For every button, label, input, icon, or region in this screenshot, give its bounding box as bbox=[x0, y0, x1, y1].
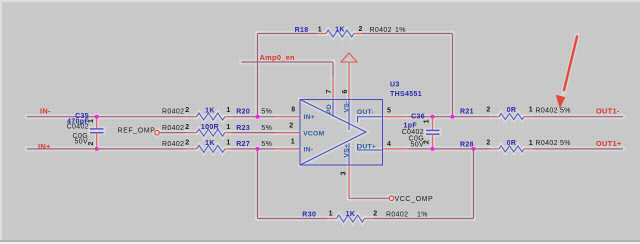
svg-text:OUT1-: OUT1- bbox=[596, 106, 620, 115]
wire: bottom feedback horizontal left of R30 bbox=[258, 218, 329, 220]
svg-text:2: 2 bbox=[289, 122, 293, 129]
port VCC_OMP bbox=[389, 196, 433, 203]
svg-text:2: 2 bbox=[185, 107, 189, 114]
svg-text:R0402: R0402 bbox=[162, 141, 184, 148]
svg-text:IN-: IN- bbox=[40, 107, 51, 116]
wire: row1 to OUT1- bbox=[533, 116, 624, 118]
svg-text:IN+: IN+ bbox=[38, 142, 51, 151]
svg-text:PD: PD bbox=[326, 104, 333, 114]
wire: bottom feedback left vertical bbox=[257, 149, 259, 219]
svg-text:R0402: R0402 bbox=[162, 109, 184, 116]
junction bottom feedback / row3 bbox=[472, 147, 476, 151]
svg-text:1K: 1K bbox=[205, 140, 215, 147]
svg-text:0R: 0R bbox=[507, 140, 517, 147]
port IN- bbox=[40, 107, 51, 116]
svg-text:R0402: R0402 bbox=[536, 108, 558, 115]
svg-text:VS-: VS- bbox=[343, 101, 350, 113]
svg-text:1: 1 bbox=[424, 119, 431, 123]
wire: bottom feedback horizontal right of R30 bbox=[373, 218, 474, 220]
svg-text:5%: 5% bbox=[261, 141, 272, 148]
wire: row2 mid bbox=[231, 132, 277, 134]
capacitor C35 bbox=[67, 113, 104, 149]
svg-text:R0402: R0402 bbox=[536, 140, 558, 147]
svg-text:1: 1 bbox=[529, 107, 533, 114]
svg-text:1: 1 bbox=[318, 26, 322, 33]
wire: Amp0_en vertical to pin 7 bbox=[332, 62, 334, 100]
svg-text:R20: R20 bbox=[236, 109, 250, 116]
resistor R18 bbox=[295, 26, 406, 37]
svg-text:2: 2 bbox=[424, 140, 431, 144]
svg-text:5: 5 bbox=[387, 107, 391, 114]
svg-text:1: 1 bbox=[291, 138, 295, 145]
svg-text:Amp0_en: Amp0_en bbox=[260, 53, 296, 62]
svg-text:1: 1 bbox=[226, 107, 230, 114]
wire: bottom feedback right vertical bbox=[473, 149, 475, 219]
svg-text:IN+: IN+ bbox=[304, 114, 315, 121]
svg-text:1%: 1% bbox=[417, 212, 428, 219]
junction C35 top bbox=[95, 115, 99, 119]
svg-text:2: 2 bbox=[185, 124, 189, 131]
svg-text:1K: 1K bbox=[346, 211, 356, 218]
pin 1 lead of U3 bbox=[276, 138, 300, 149]
svg-text:1: 1 bbox=[226, 124, 230, 131]
wire halo backdrop bbox=[27, 30, 623, 222]
svg-text:2: 2 bbox=[359, 26, 363, 33]
svg-text:0R: 0R bbox=[507, 107, 517, 114]
svg-text:C0402: C0402 bbox=[67, 124, 89, 131]
window edge left bbox=[0, 0, 2, 244]
svg-text:R0402: R0402 bbox=[162, 125, 184, 132]
svg-text:2: 2 bbox=[486, 107, 490, 114]
resistor R30 bbox=[302, 210, 428, 222]
window edge top bbox=[0, 0, 640, 2]
svg-text:50V: 50V bbox=[74, 139, 88, 146]
svg-text:VS+: VS+ bbox=[343, 144, 350, 158]
pin 8 lead of U3 bbox=[276, 106, 300, 116]
svg-text:R23: R23 bbox=[236, 125, 250, 132]
svg-text:1K: 1K bbox=[205, 108, 215, 115]
svg-text:R21: R21 bbox=[460, 108, 474, 115]
svg-text:OUT+: OUT+ bbox=[357, 144, 376, 151]
wire: top feedback left vertical bbox=[257, 34, 259, 117]
junction C36 top bbox=[431, 115, 435, 119]
svg-text:VCC_OMP: VCC_OMP bbox=[395, 196, 434, 203]
wire: row3 left bbox=[27, 148, 186, 150]
svg-text:5%: 5% bbox=[261, 125, 272, 132]
svg-text:3: 3 bbox=[341, 171, 348, 175]
junction row3 / bottom feedback bbox=[256, 147, 260, 151]
svg-text:VCOM: VCOM bbox=[303, 130, 324, 137]
pin 4 lead of U3 bbox=[383, 148, 408, 150]
svg-text:OUT-: OUT- bbox=[357, 109, 374, 116]
svg-text:1: 1 bbox=[88, 119, 95, 123]
svg-text:7: 7 bbox=[326, 89, 333, 93]
wire: top feedback horizontal right of R18 bbox=[362, 33, 453, 35]
junction C36 bottom bbox=[431, 147, 435, 151]
svg-text:U3: U3 bbox=[390, 82, 400, 89]
op-amp U3 bbox=[300, 82, 422, 176]
wire: row1 right bbox=[408, 116, 491, 118]
svg-text:2: 2 bbox=[185, 140, 189, 147]
svg-text:100R: 100R bbox=[201, 124, 219, 131]
wire: VCC_OMP horizontal bbox=[349, 197, 389, 199]
svg-text:1: 1 bbox=[329, 210, 333, 217]
wire: top feedback horizontal left of R18 bbox=[258, 33, 319, 35]
resistor R23 bbox=[162, 124, 272, 136]
port IN+ bbox=[38, 142, 51, 151]
svg-text:5%: 5% bbox=[560, 108, 571, 115]
wire: row1 mid bbox=[231, 116, 277, 118]
svg-text:8: 8 bbox=[291, 106, 295, 113]
svg-text:5%: 5% bbox=[261, 109, 272, 116]
port OUT1- bbox=[596, 106, 620, 115]
svg-text:2: 2 bbox=[486, 140, 490, 147]
svg-text:R18: R18 bbox=[295, 27, 309, 34]
power symbol VS- bbox=[341, 53, 357, 100]
svg-text:R0402: R0402 bbox=[386, 212, 408, 219]
svg-text:2: 2 bbox=[373, 210, 377, 217]
svg-text:1: 1 bbox=[226, 140, 230, 147]
wire: row3 to OUT1+ bbox=[533, 148, 624, 150]
pin 5 lead of U3 bbox=[383, 116, 408, 118]
wire: row2 left bbox=[159, 132, 186, 134]
port OUT1+ bbox=[596, 139, 622, 148]
svg-text:2: 2 bbox=[88, 141, 95, 145]
wire: row3 mid bbox=[231, 148, 277, 150]
resistor R20 bbox=[162, 107, 272, 120]
svg-text:6: 6 bbox=[342, 89, 349, 93]
junction row1 / top feedback bbox=[256, 115, 260, 119]
svg-text:IN-: IN- bbox=[304, 147, 314, 154]
wire: row1 left bbox=[27, 116, 186, 118]
capacitor C36 bbox=[402, 113, 440, 149]
svg-text:R28: R28 bbox=[460, 141, 474, 148]
resistor R21 bbox=[460, 107, 571, 120]
svg-text:1K: 1K bbox=[335, 26, 345, 33]
svg-text:REF_OMP: REF_OMP bbox=[118, 128, 156, 135]
svg-text:5%: 5% bbox=[560, 140, 571, 147]
svg-text:4: 4 bbox=[387, 141, 391, 148]
pin 3 lead of U3 bbox=[348, 165, 350, 198]
annotation arrow bbox=[556, 36, 578, 109]
junction top feedback / row1 bbox=[451, 115, 455, 119]
svg-text:R27: R27 bbox=[236, 141, 250, 148]
resistor R27 bbox=[162, 140, 272, 153]
resistor R28 bbox=[460, 140, 571, 152]
pin 2 lead of U3 bbox=[276, 122, 300, 132]
port REF_OMP bbox=[118, 128, 160, 135]
svg-text:OUT1+: OUT1+ bbox=[596, 139, 622, 148]
wire: Amp0_en horizontal bbox=[242, 61, 334, 63]
junction C35 bottom bbox=[95, 147, 99, 151]
svg-text:1: 1 bbox=[529, 140, 533, 147]
wire: top feedback right vertical bbox=[452, 34, 454, 117]
bottom bar bbox=[0, 240, 640, 242]
wire: row3 right bbox=[408, 148, 491, 150]
net label Amp0_en bbox=[260, 53, 296, 62]
svg-text:50V: 50V bbox=[410, 142, 424, 149]
svg-text:THS4551: THS4551 bbox=[390, 91, 422, 98]
svg-text:R30: R30 bbox=[302, 212, 316, 219]
